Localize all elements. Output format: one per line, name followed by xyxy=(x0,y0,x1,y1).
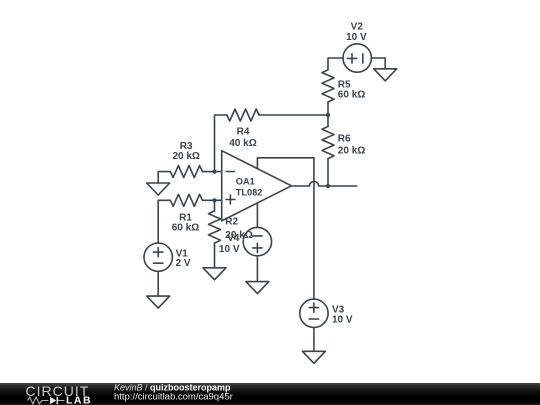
resistor R5 xyxy=(322,70,334,115)
wire V3 to ground xyxy=(313,328,315,352)
wire op-amp V+ supply rail xyxy=(257,158,314,169)
resistor R6 xyxy=(322,115,334,186)
CircuitLab logo resistor zigzag xyxy=(28,397,49,404)
CircuitLab logo diode symbol xyxy=(50,397,65,404)
ground at R2 xyxy=(203,268,226,280)
wire V1 to ground xyxy=(157,271,159,296)
svg-text:R4: R4 xyxy=(237,127,250,138)
wire to op-amp inverting input xyxy=(215,171,222,173)
label V4 xyxy=(219,233,240,255)
voltage source V4 xyxy=(243,227,271,255)
svg-text:TL082: TL082 xyxy=(236,188,263,198)
resistor R4 xyxy=(215,109,329,172)
svg-text:10 V: 10 V xyxy=(219,244,240,255)
op-amp OA1 xyxy=(222,151,292,221)
svg-text:10 V: 10 V xyxy=(346,32,367,43)
wire V2 left to R5 xyxy=(328,58,343,70)
label R4 xyxy=(229,127,256,149)
svg-text:60 kΩ: 60 kΩ xyxy=(338,90,365,101)
node inverting input xyxy=(212,170,216,174)
svg-text:R6: R6 xyxy=(338,133,351,144)
voltage source V2 xyxy=(343,44,371,72)
svg-text:10 V: 10 V xyxy=(332,314,353,325)
voltage source V3 xyxy=(300,299,328,327)
node output junction xyxy=(326,184,330,188)
label R2 xyxy=(225,217,252,242)
node R4/R5/R6 junction xyxy=(326,113,330,117)
wire V1 to R1 xyxy=(158,200,170,243)
label OA1 xyxy=(236,177,263,198)
ground at V1 xyxy=(147,296,170,308)
ground at V2 xyxy=(374,69,397,81)
label R5 xyxy=(338,80,365,101)
svg-text:V2: V2 xyxy=(351,21,364,32)
voltage source V1 xyxy=(144,243,172,271)
footer bar xyxy=(0,383,540,405)
svg-text:60 kΩ: 60 kΩ xyxy=(172,222,199,233)
svg-text:40 kΩ: 40 kΩ xyxy=(229,138,256,149)
ground at V3 xyxy=(302,351,325,363)
ground at R3 xyxy=(147,183,170,195)
svg-text:20 kΩ: 20 kΩ xyxy=(338,146,365,157)
label R1 xyxy=(172,212,199,233)
label V2 xyxy=(346,21,367,43)
svg-text:R3: R3 xyxy=(180,141,193,152)
wire rail down to V3 xyxy=(313,158,315,299)
svg-text:OA1: OA1 xyxy=(236,177,255,187)
ground at V4 xyxy=(246,282,269,294)
svg-text:LAB: LAB xyxy=(66,394,92,405)
svg-text:http://circuitlab.com/ca9q45r: http://circuitlab.com/ca9q45r xyxy=(114,391,233,402)
svg-text:V4: V4 xyxy=(227,233,240,244)
label V1 xyxy=(176,248,191,269)
label R6 xyxy=(338,133,365,156)
wire V2 right to ground xyxy=(371,58,385,69)
wire op-amp V- supply pin xyxy=(256,203,258,227)
wire op-amp output with hop over supply wire xyxy=(292,181,357,186)
wire V4 to ground xyxy=(256,256,258,282)
svg-text:2 V: 2 V xyxy=(176,258,191,269)
wire to op-amp non-inverting input xyxy=(215,199,222,201)
resistor R1 xyxy=(170,194,214,206)
resistor R3 xyxy=(170,166,214,178)
label V3 xyxy=(332,305,353,326)
svg-text:20 kΩ: 20 kΩ xyxy=(172,151,199,162)
resistor R2 xyxy=(209,200,221,267)
wire ground to R3 xyxy=(158,172,170,183)
label R3 xyxy=(172,141,199,162)
node non-inverting input xyxy=(212,198,216,202)
